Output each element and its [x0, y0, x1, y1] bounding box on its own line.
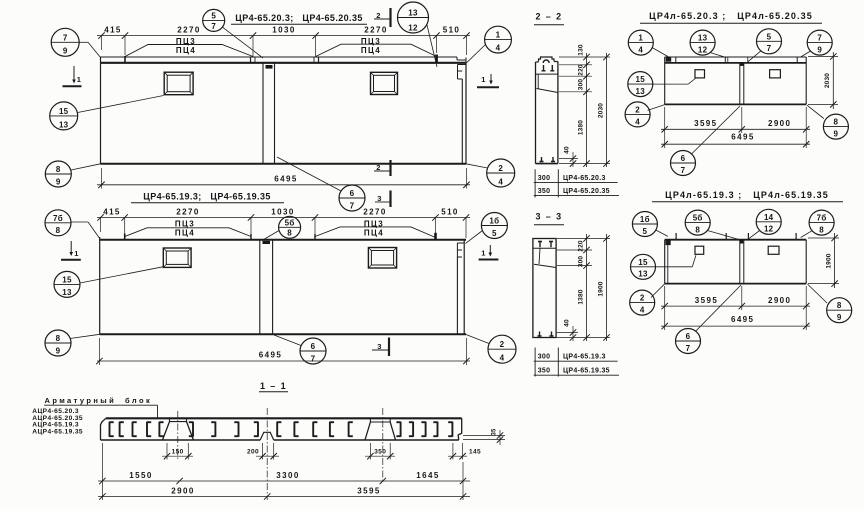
svg-text:5: 5	[492, 229, 497, 238]
panel 4 outline	[665, 239, 807, 241]
view mark 1 right of drawing 1	[490, 74, 492, 84]
section mark 2 top	[389, 8, 391, 27]
svg-text:6495: 6495	[731, 133, 754, 142]
svg-text:2900: 2900	[768, 296, 791, 305]
leader 7/9 d3	[801, 51, 811, 57]
svg-text:ПЦ4: ПЦ4	[176, 46, 196, 55]
embed plate rib 1	[266, 65, 273, 69]
balloon 13/12	[398, 2, 429, 33]
svg-text:4: 4	[635, 117, 640, 126]
svg-text:2900: 2900	[171, 486, 194, 495]
svg-text:7: 7	[211, 22, 216, 31]
balloon 1b/5 d4	[632, 212, 657, 237]
svg-text:5: 5	[767, 32, 772, 41]
svg-text:13: 13	[62, 288, 72, 297]
leader balloon 7/9	[79, 41, 88, 43]
leader 14/12 d4	[748, 231, 759, 239]
stirrups group 4	[400, 422, 402, 437]
dim row 2900/3595	[98, 496, 470, 498]
dim 40 bracket 2-2	[572, 152, 574, 167]
joint rib panel 2	[259, 240, 261, 334]
svg-text:9: 9	[817, 46, 822, 55]
dim 35 slab thickness	[463, 435, 505, 437]
ext lines 3-3	[557, 238, 610, 240]
leader balloon 6/7	[277, 157, 341, 191]
svg-text:3: 3	[377, 342, 383, 351]
svg-text:ЦР4-65.19.3: ЦР4-65.19.3	[563, 354, 606, 361]
svg-text:ПЦ4: ПЦ4	[361, 46, 381, 55]
balloon 6/7 d3	[671, 151, 696, 176]
window opening 2-1	[163, 248, 191, 267]
dim line 6495 d4	[661, 325, 810, 327]
balloon 15/13	[50, 102, 78, 130]
svg-text:200: 200	[247, 449, 259, 456]
balloon 2/4 d3	[625, 102, 650, 127]
leader balloon 8/9	[71, 164, 101, 170]
section mark 2 bottom	[389, 160, 391, 176]
section mark 3 top	[389, 191, 391, 208]
svg-text:ПЦ4: ПЦ4	[364, 228, 384, 237]
panel 2 right edge	[463, 240, 465, 334]
svg-text:510: 510	[443, 26, 461, 35]
svg-text:300: 300	[538, 354, 551, 361]
svg-text:3 – 3: 3 – 3	[535, 212, 562, 222]
dim chain 2-2 outer 2030	[606, 53, 608, 167]
svg-text:2270: 2270	[364, 26, 387, 35]
svg-text:6: 6	[681, 154, 686, 163]
dim 40 bracket 3-3	[572, 326, 574, 341]
svg-text:2: 2	[500, 340, 505, 349]
svg-text:8: 8	[56, 334, 61, 343]
svg-text:350: 350	[538, 188, 551, 195]
leader 2/4 d3	[648, 105, 665, 111]
svg-text:ПЦ3: ПЦ3	[175, 219, 195, 228]
svg-text:12: 12	[408, 23, 418, 32]
svg-text:2270: 2270	[363, 208, 386, 217]
svg-text:1б: 1б	[640, 215, 650, 224]
panel 3 band seams	[675, 57, 677, 64]
table 2-2	[534, 169, 536, 197]
window 4-1	[695, 246, 704, 254]
leader 2/4 d4	[651, 284, 665, 298]
balloon 15/13 d3	[628, 72, 653, 97]
leader 13/12 d3	[710, 53, 726, 58]
svg-text:1900: 1900	[826, 253, 833, 268]
svg-text:300: 300	[578, 256, 585, 268]
mini dim 150	[166, 443, 168, 460]
svg-text:ЦР4-65.20.3: ЦР4-65.20.3	[563, 175, 606, 182]
svg-text:2: 2	[376, 11, 382, 20]
table 3-3	[534, 348, 536, 377]
joint rib panel 1	[262, 63, 264, 163]
svg-text:7: 7	[311, 354, 316, 363]
leader balloon 1/4	[467, 45, 486, 63]
embed plate rib 4	[740, 240, 744, 243]
balloon 14/12 d4	[756, 209, 781, 234]
dim chain 1900 d4	[834, 233, 836, 288]
svg-text:5: 5	[211, 11, 216, 20]
window 4-2	[768, 246, 779, 254]
svg-text:6495: 6495	[259, 351, 282, 360]
leader balloon 15/13 d2	[80, 267, 163, 283]
svg-text:9: 9	[56, 177, 61, 186]
svg-text:220: 220	[578, 64, 585, 76]
svg-text:3595: 3595	[357, 486, 380, 495]
svg-text:145: 145	[469, 449, 481, 456]
svg-text:13: 13	[636, 87, 646, 96]
balloon 2/4 drawing 1	[487, 159, 515, 187]
balloon 7/9 d3	[807, 30, 832, 55]
leader 15/13 d4	[656, 266, 693, 268]
svg-text:ПЦ4: ПЦ4	[175, 228, 195, 237]
mini dim 350	[369, 443, 371, 460]
dim line 3595/2900 d4	[661, 305, 810, 307]
balloon 15/13 d4	[631, 254, 656, 279]
svg-text:415: 415	[104, 26, 122, 35]
svg-text:8: 8	[287, 229, 292, 238]
svg-text:Арматурный блок: Арматурный блок	[45, 396, 153, 405]
panel 3 outline	[664, 57, 666, 104]
svg-text:7: 7	[686, 344, 691, 353]
svg-text:6: 6	[350, 189, 355, 198]
leader balloon 2/4 drawing 1	[466, 164, 488, 168]
balloon 8/9 d3	[823, 114, 848, 139]
leader 8/9 d3	[807, 105, 824, 118]
taper line 3-3	[534, 264, 556, 267]
svg-text:8: 8	[819, 226, 824, 235]
svg-text:1550: 1550	[129, 471, 152, 480]
svg-text:ЦР4-65.19.3; ЦР4-65.19.35: ЦР4-65.19.3; ЦР4-65.19.35	[143, 192, 271, 202]
svg-text:15: 15	[59, 107, 69, 116]
svg-text:ЦР4л-65.19.3 ; ЦР4л-65.19.35: ЦР4л-65.19.3 ; ЦР4л-65.19.35	[665, 190, 829, 200]
balloon 1b/5	[481, 213, 507, 239]
svg-text:350: 350	[538, 368, 551, 375]
svg-text:2 – 2: 2 – 2	[535, 12, 562, 22]
embed plate rib 3	[740, 64, 744, 66]
svg-text:5б: 5б	[693, 214, 703, 223]
svg-text:8: 8	[56, 165, 61, 174]
svg-text:13: 13	[59, 120, 69, 129]
ext lines 2-2	[559, 56, 610, 58]
balloon 5/7 d3	[757, 29, 782, 54]
svg-text:6495: 6495	[274, 174, 297, 183]
svg-text:1 – 1: 1 – 1	[260, 381, 287, 391]
leader 6/7 d3	[692, 106, 741, 154]
slab left end	[101, 418, 106, 440]
balloon 15/13 d2	[54, 271, 80, 297]
svg-text:2: 2	[640, 294, 645, 303]
dim chain 3-3 inner	[586, 234, 588, 341]
panel 2 outline	[100, 239, 466, 241]
ext lines 1900 d4	[808, 237, 839, 239]
svg-text:2900: 2900	[768, 119, 791, 128]
window 3-1	[695, 70, 705, 78]
svg-text:8: 8	[834, 118, 839, 127]
svg-text:13: 13	[408, 9, 418, 18]
svg-text:2030: 2030	[824, 73, 831, 88]
svg-text:15: 15	[638, 258, 648, 267]
svg-text:ЦР4-65.20.3; ЦР4-65.20.35: ЦР4-65.20.3; ЦР4-65.20.35	[235, 13, 363, 23]
svg-text:7б: 7б	[817, 214, 827, 223]
anchor studs 3-3 top	[539, 242, 541, 248]
svg-text:4: 4	[500, 354, 505, 363]
svg-text:1: 1	[481, 249, 487, 258]
view mark 1 right of drawing 2	[489, 245, 491, 256]
dim row 1550/3300/1645	[98, 480, 470, 482]
balloon 6/7 drawing 1	[339, 185, 365, 211]
taper line 2-2	[537, 89, 558, 93]
svg-text:300: 300	[538, 175, 551, 182]
svg-text:1030: 1030	[272, 26, 295, 35]
svg-text:1: 1	[74, 249, 80, 258]
dim chain 2030 d3	[832, 52, 834, 109]
balloon 7b/8	[45, 210, 71, 236]
section 2-2 profile	[536, 61, 539, 63]
panel 4 top seam ticks	[675, 233, 677, 240]
svg-text:415: 415	[103, 208, 121, 217]
dim line 6495 top drawing 2 (415/2270/1030/2270/510)	[97, 217, 470, 219]
svg-text:1: 1	[77, 75, 83, 84]
svg-text:ЦР4-65.20.35: ЦР4-65.20.35	[563, 188, 610, 195]
balloon 5/7	[203, 9, 225, 31]
leader balloon 6/7 d2	[274, 335, 301, 346]
svg-text:14: 14	[764, 213, 774, 222]
balloon 5b/8 d4	[685, 210, 710, 235]
svg-text:7: 7	[767, 44, 772, 53]
dim line 6495 top (415/2270/1030/2270/510)	[97, 35, 470, 37]
svg-text:5б: 5б	[285, 218, 295, 227]
tendon zone trapezoid left d2	[125, 228, 251, 237]
svg-text:ПЦ3: ПЦ3	[361, 37, 381, 46]
section 3-3 profile	[533, 239, 556, 338]
slab right end	[458, 418, 462, 440]
svg-text:6495: 6495	[731, 315, 754, 324]
slab bottom edge	[101, 439, 261, 441]
svg-text:АЦР4-65.19.35: АЦР4-65.19.35	[32, 428, 83, 435]
svg-text:130: 130	[578, 44, 585, 56]
rib 1 section	[169, 418, 171, 421]
leader 5b/8 d4	[708, 231, 740, 240]
svg-text:7: 7	[681, 166, 686, 175]
axis rib 1	[177, 411, 179, 459]
rib 3 section	[369, 418, 371, 422]
panel 3 band	[665, 56, 807, 58]
stirrups group 1	[109, 422, 111, 437]
svg-text:ПЦ3: ПЦ3	[176, 37, 196, 46]
leader balloon 13/12	[427, 25, 437, 67]
anchor studs 3-3 bottom	[539, 332, 541, 337]
leader balloon 1b/5	[466, 231, 483, 244]
svg-text:6: 6	[686, 332, 691, 341]
svg-text:6: 6	[311, 342, 316, 351]
leader 5/7 d3	[747, 51, 762, 63]
svg-text:15: 15	[62, 275, 72, 284]
svg-text:13: 13	[638, 270, 648, 279]
leader 6/7 d4	[696, 285, 741, 331]
svg-text:510: 510	[441, 208, 459, 217]
svg-text:8: 8	[56, 226, 61, 235]
svg-text:3595: 3595	[694, 119, 717, 128]
balloon 6/7 d4	[676, 329, 701, 354]
window opening 1-2	[371, 72, 398, 94]
leader 1/4 d3	[652, 48, 671, 59]
stirrups group 2	[192, 422, 194, 437]
tendon zone trapezoid left	[125, 45, 253, 57]
leader 15/13 d3	[653, 83, 689, 85]
leader balloon 5/7	[223, 27, 264, 58]
section mark 3 bottom	[388, 338, 390, 357]
svg-text:2270: 2270	[177, 26, 200, 35]
leader 8/9 d4	[808, 284, 828, 303]
svg-text:3595: 3595	[695, 296, 718, 305]
tendon zone trapezoid right	[316, 44, 437, 56]
svg-text:2270: 2270	[176, 208, 199, 217]
embed plate rib 2	[263, 241, 271, 244]
balloon 7b/8 d4	[809, 210, 834, 235]
dim line 6495 d3	[661, 143, 810, 145]
balloon 1/4 d3	[628, 30, 653, 55]
svg-text:8: 8	[837, 301, 842, 310]
svg-text:1б: 1б	[489, 217, 499, 226]
svg-text:7б: 7б	[53, 214, 63, 223]
svg-text:1380: 1380	[578, 289, 585, 304]
svg-text:300: 300	[578, 79, 585, 91]
svg-text:12: 12	[698, 46, 708, 55]
leader 7b/8 d4	[801, 231, 812, 238]
svg-text:ЦР4-65.19.35: ЦР4-65.19.35	[563, 368, 610, 375]
joint rib panel 4	[739, 240, 741, 284]
svg-text:350: 350	[374, 449, 386, 456]
dim line 6495 bottom drawing 2	[97, 360, 470, 362]
svg-text:1: 1	[638, 34, 643, 43]
balloon 8/9 drawing 1	[45, 161, 71, 187]
panel 1 right edge	[465, 63, 467, 164]
svg-text:ПЦ3: ПЦ3	[364, 219, 384, 228]
svg-text:2: 2	[635, 105, 640, 114]
svg-text:40: 40	[564, 319, 571, 327]
svg-text:1645: 1645	[416, 471, 439, 480]
window 3-2	[770, 70, 781, 78]
svg-text:4: 4	[498, 177, 503, 186]
mini dim 145	[452, 443, 454, 460]
leader 1b/5 d4	[656, 230, 668, 236]
balloon 7/9	[51, 28, 79, 56]
tendon zone trapezoid right d2	[315, 227, 436, 238]
svg-text:35: 35	[492, 428, 498, 436]
dim line 3595/2900 d3	[661, 128, 810, 130]
leader balloon 5b/8	[262, 231, 279, 241]
svg-text:8: 8	[695, 226, 700, 235]
svg-text:12: 12	[764, 225, 774, 234]
svg-text:1900: 1900	[598, 281, 605, 296]
svg-text:5: 5	[643, 227, 648, 236]
balloon 8/9 d4	[827, 298, 852, 323]
svg-text:4: 4	[640, 306, 645, 315]
leader balloon 15/13	[78, 96, 164, 113]
view mark 1 left of drawing 2	[70, 241, 72, 255]
window opening 2-2	[368, 248, 396, 269]
section 3-3 top block line	[533, 247, 556, 249]
svg-text:7: 7	[350, 201, 355, 210]
balloon 6/7 d2	[300, 338, 326, 364]
balloon 2/4 d4	[630, 290, 655, 315]
svg-text:1: 1	[481, 75, 487, 84]
rib 2 joint bump	[260, 432, 274, 440]
ext lines 2030 d3	[808, 56, 838, 58]
view mark 1 left of drawing 1	[73, 66, 75, 83]
band seam marks	[124, 56, 126, 63]
svg-text:2: 2	[376, 163, 382, 172]
leader balloon 8/9 d2	[70, 334, 100, 338]
svg-text:2030: 2030	[598, 103, 605, 118]
dim chain 2-2 inner	[586, 53, 588, 167]
balloon 8/9 d2	[45, 330, 71, 356]
svg-text:150: 150	[172, 449, 184, 456]
anchor studs 2-2 bottom	[541, 157, 543, 162]
leader balloon 7b/8	[71, 221, 88, 223]
dim chain 3-3 outer 1900	[606, 234, 608, 341]
balloon 2/4 d2	[488, 335, 516, 363]
svg-text:4: 4	[638, 46, 643, 55]
svg-text:2: 2	[498, 164, 503, 173]
svg-text:220: 220	[578, 240, 585, 252]
window opening 1-1	[164, 72, 193, 95]
svg-text:15: 15	[636, 75, 646, 84]
leader balloon 2/4 d2	[466, 335, 489, 344]
svg-text:9: 9	[63, 47, 68, 56]
stirrups group 3	[276, 422, 278, 437]
panel 2 top seam ticks	[124, 234, 126, 241]
balloon 13/12 d3	[690, 30, 715, 55]
panel 1 outline	[100, 57, 102, 164]
svg-text:ЦР4л-65.20.3 ; ЦР4л-65.20.35: ЦР4л-65.20.3 ; ЦР4л-65.20.35	[649, 11, 813, 21]
balloon 5b/8	[279, 216, 301, 238]
svg-text:3: 3	[377, 194, 383, 203]
svg-text:4: 4	[496, 43, 501, 52]
joint rib panel 3	[739, 63, 741, 105]
svg-text:1: 1	[496, 31, 501, 40]
svg-text:7: 7	[63, 33, 68, 42]
svg-text:9: 9	[56, 346, 61, 355]
svg-text:1030: 1030	[271, 208, 294, 217]
svg-text:9: 9	[837, 313, 842, 322]
axis rib 3	[382, 408, 384, 483]
section 2-2 top block line	[536, 73, 558, 75]
top chord band	[101, 56, 456, 58]
lifting hook 2-2	[543, 60, 549, 63]
svg-text:13: 13	[698, 34, 708, 43]
axis rib 2	[266, 408, 268, 500]
dim line 6495 bottom drawing 1	[97, 184, 470, 186]
slab top edge	[106, 417, 462, 419]
svg-text:7: 7	[817, 34, 822, 43]
svg-text:9: 9	[834, 130, 839, 139]
svg-text:3300: 3300	[276, 471, 299, 480]
mini dim 200	[262, 443, 264, 460]
anchor studs 2-2 top	[543, 65, 545, 71]
svg-text:40: 40	[564, 146, 571, 154]
svg-text:1380: 1380	[578, 120, 585, 135]
balloon 1/4 drawing 1	[485, 26, 512, 53]
